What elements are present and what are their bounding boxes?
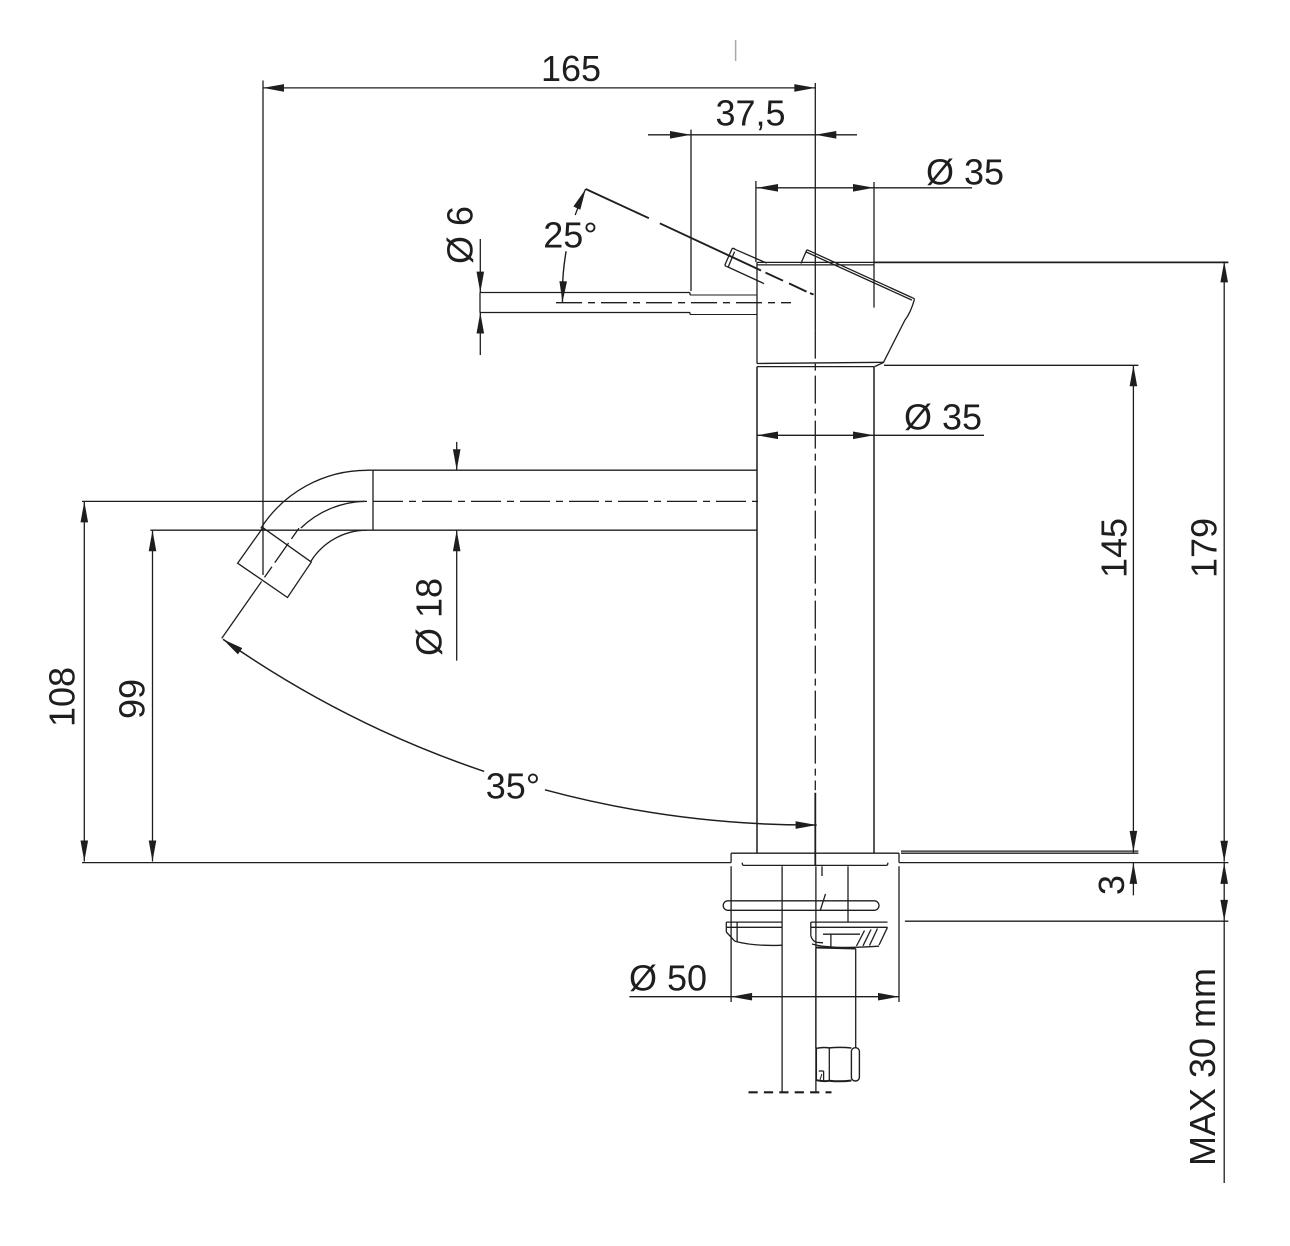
svg-text:37,5: 37,5 bbox=[715, 93, 785, 134]
svg-text:179: 179 bbox=[1184, 518, 1225, 578]
svg-text:35°: 35° bbox=[486, 765, 540, 806]
svg-text:108: 108 bbox=[42, 667, 83, 727]
svg-text:3: 3 bbox=[1091, 875, 1132, 895]
svg-text:99: 99 bbox=[112, 679, 153, 719]
svg-text:Ø 18: Ø 18 bbox=[409, 578, 450, 656]
svg-text:25°: 25° bbox=[543, 215, 597, 256]
svg-text:145: 145 bbox=[1094, 518, 1135, 578]
svg-text:Ø 35: Ø 35 bbox=[926, 152, 1004, 193]
svg-text:Ø 6: Ø 6 bbox=[440, 206, 481, 264]
svg-text:Ø 35: Ø 35 bbox=[904, 397, 982, 438]
svg-text:MAX 30 mm: MAX 30 mm bbox=[1182, 968, 1223, 1166]
svg-text:Ø 50: Ø 50 bbox=[629, 958, 707, 999]
svg-text:165: 165 bbox=[541, 48, 601, 89]
